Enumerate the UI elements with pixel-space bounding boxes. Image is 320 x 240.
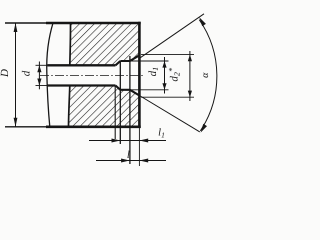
centerline <box>40 74 144 76</box>
extension lines for d1 <box>121 60 169 62</box>
dimension l1 line <box>89 140 166 142</box>
svg-text:l: l <box>127 150 130 161</box>
svg-text:α: α <box>200 72 211 78</box>
countersink cylinder d1 <box>120 61 130 90</box>
left break line <box>47 23 53 127</box>
dimension d2 line <box>189 51 191 101</box>
alpha construction line lower <box>139 96 199 132</box>
hatch fill upper section <box>70 23 140 65</box>
second break line (hatch boundary) <box>69 23 71 127</box>
hole bottom line <box>48 84 116 86</box>
extension line from cone2 start down (for l) <box>129 56 131 164</box>
extension line from cone1 end down (for l1) <box>119 62 121 145</box>
bottom edge extension line <box>5 126 50 128</box>
right face of block <box>138 22 141 128</box>
svg-text:D: D <box>0 69 11 78</box>
alpha construction line upper <box>139 14 204 59</box>
d1 arrow bottom <box>162 83 166 90</box>
dimension l line <box>96 160 166 162</box>
hatch fill lower section <box>69 86 140 127</box>
d1 arrow top <box>162 61 166 68</box>
countersink cone 2 to face <box>130 55 140 95</box>
hole top line <box>48 64 116 66</box>
extension lines for d2 <box>141 54 194 56</box>
l1 arrow right (outside, tip left) <box>139 139 148 143</box>
bottom edge of block <box>46 126 141 129</box>
d2 arrow top <box>188 55 192 62</box>
alpha arc arrowhead bottom <box>201 124 207 133</box>
D arrow bottom <box>14 118 18 127</box>
alpha arc arrowhead top <box>199 17 206 26</box>
countersink cone 1 <box>116 61 121 90</box>
dimension d1 line <box>164 57 166 94</box>
D arrow top <box>14 23 18 32</box>
d arrow bottom <box>37 79 41 86</box>
l1 arrow left (outside, tip right) <box>112 139 121 143</box>
top edge of block <box>46 22 141 25</box>
extension line from hole end down <box>114 86 116 140</box>
l arrow left (outside, tip right) <box>121 159 130 163</box>
dimension d line <box>38 62 40 90</box>
l arrow right (outside, tip left) <box>139 159 148 163</box>
right face extension line down <box>138 128 140 166</box>
hole extension lines left (for d) <box>36 64 48 66</box>
dimension D line <box>15 23 17 127</box>
svg-text:d: d <box>21 70 33 76</box>
top edge extension line <box>5 22 52 24</box>
d2 arrow bottom <box>188 91 192 98</box>
d arrow top <box>37 65 41 72</box>
alpha arc <box>199 20 217 131</box>
